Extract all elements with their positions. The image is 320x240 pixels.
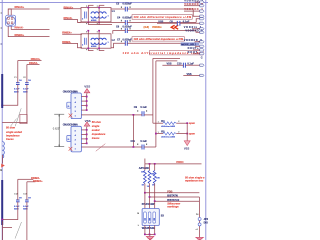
svg-text:50 ohm: 50 ohm — [6, 126, 16, 130]
svg-text:single ended: single ended — [6, 130, 22, 134]
wire P1 bottom pin b — [8, 26, 49, 36]
wire R5 right — [176, 133, 187, 135]
AC coupling cap C12 — [14, 193, 22, 210]
leader line c — [15, 222, 22, 239]
svg-text:M: M — [137, 213, 139, 215]
diff impedance note box 2 — [132, 37, 184, 42]
wire C1 bottom to border — [2, 85, 18, 106]
wire RINBX+ into L2 — [62, 33, 82, 35]
wire border down to flag B — [2, 155, 4, 164]
wire jog row1 to port — [193, 9, 200, 16]
wire RN1a down — [144, 184, 146, 193]
svg-text:DIS: DIS — [204, 222, 208, 225]
wire L1 vertical pass 2 — [98, 5, 100, 24]
AC coupling cap C13 — [23, 193, 31, 210]
wire row RINBX+ through C6 — [113, 31, 126, 34]
ground VSS under S3 — [149, 234, 151, 236]
wire RINAX- into L1 — [64, 20, 82, 23]
ground VSS triangle — [184, 141, 190, 146]
wires S1 pins — [81, 96, 86, 98]
note 50 ohm single ended (left) — [6, 126, 22, 141]
svg-text:0.033uF: 0.033uF — [123, 38, 133, 41]
wire PDB row — [145, 192, 200, 194]
junction dots VDDO — [149, 163, 151, 165]
junction dots L1 — [87, 7, 89, 9]
wire DIN vertical 1 — [153, 57, 180, 59]
junction dots L2 — [87, 30, 89, 32]
chevrons << — [171, 25, 178, 29]
svg-text:W/S4BASE: W/S4BASE — [142, 227, 155, 230]
svg-text:0.1uF: 0.1uF — [140, 106, 147, 109]
wire C2 stub row — [27, 64, 40, 66]
wire row RINBX- through C7 — [111, 43, 125, 48]
svg-text:impedance: impedance — [92, 132, 106, 136]
wire RINBX+ stub row — [27, 181, 36, 183]
wire vertical link C9-C11 — [132, 115, 134, 147]
connector S1 side tab — [67, 102, 71, 108]
svg-text:open: open — [189, 132, 196, 135]
wire L2 vertical pass 1 — [87, 31, 89, 51]
wire C1 stub row — [18, 60, 42, 62]
junction C11 left — [133, 146, 135, 148]
common-mode choke L2 — [81, 34, 111, 48]
wire C9 row — [133, 114, 142, 116]
svg-text:4XNS: 4XNS — [91, 19, 97, 22]
svg-text:49.9ohm-0402: 49.9ohm-0402 — [161, 125, 176, 128]
svg-text:(3-8): (3-8) — [144, 25, 150, 29]
connector S2 body — [71, 126, 81, 152]
wire row RINAX+ through C3 — [111, 8, 125, 10]
resistor RN1c — [153, 164, 160, 184]
wire C8 row — [157, 22, 177, 24]
wire R4 left — [153, 122, 163, 124]
wire VDDO stub up — [144, 159, 146, 164]
ground VSS under JP — [196, 237, 204, 240]
junction R4 — [186, 122, 188, 124]
wire border corner bottom — [3, 221, 12, 228]
svg-text:ended: ended — [92, 128, 100, 132]
capacitor C8 with VSS — [158, 21, 189, 26]
svg-text:P/S4TASW: P/S4TASW — [142, 203, 155, 206]
sheet top border — [0, 2, 208, 4]
svg-text:100 ohm differential impedance: 100 ohm differential impedance +/-5% — [134, 15, 192, 19]
diff impedance note box 1 — [132, 15, 192, 20]
junction R5 — [186, 133, 188, 135]
svg-text:0.1uF: 0.1uF — [23, 206, 29, 208]
dimension annotation 0.625in — [53, 114, 64, 147]
junction at border — [1, 104, 3, 106]
flag B — [1, 164, 5, 168]
resistor R4 row — [158, 120, 181, 128]
power VSS arrow (S1) — [84, 89, 90, 94]
connector S2 side tab — [67, 136, 71, 142]
svg-text:A/P4S08: A/P4S08 — [139, 167, 150, 170]
sheet right border — [205, 0, 207, 240]
wire R5 left — [156, 133, 163, 135]
port MODE_SEL1 highlighted — [181, 42, 200, 45]
wire C2 top — [26, 65, 28, 83]
note 50 ohm single ended (middle) — [92, 120, 106, 140]
common-mode choke L1 — [81, 8, 111, 22]
resistor RN1b — [148, 164, 155, 184]
wire C10 row — [162, 64, 183, 66]
pin1 marker X (S2) — [69, 147, 73, 151]
svg-text:4XNS: 4XNS — [91, 45, 97, 48]
svg-text:0.1uF: 0.1uF — [140, 140, 147, 143]
wires S3 pins down — [144, 225, 146, 234]
wire S2 pin1 signal — [81, 146, 133, 148]
svg-text:MODE_SEL1: MODE_SEL1 — [181, 43, 197, 46]
wire row RINAX- through C4 — [78, 21, 126, 23]
pin numbers L1 — [85, 5, 88, 8]
wire L1 bottom rail — [88, 24, 112, 26]
border bus segment 2 — [1, 180, 3, 225]
wire B/STATN row — [150, 196, 200, 198]
wire L2 vertical pass 2 — [98, 31, 100, 51]
capacitor C4 — [117, 17, 132, 25]
probe box — [20, 115, 27, 124]
svg-text:0.033uF: 0.033uF — [123, 3, 133, 6]
svg-text:VSS: VSS — [184, 146, 190, 150]
wire jog row2 to port — [196, 19, 200, 23]
wires into S3 — [144, 193, 146, 212]
svg-text:0.033uF: 0.033uF — [123, 25, 133, 28]
AC coupling cap C2 — [23, 77, 31, 93]
wire C2 bottom down — [2, 85, 27, 123]
capacitor C9 — [134, 106, 148, 116]
svg-text:VDDO: VDDO — [176, 160, 184, 164]
AC coupling cap C1 — [14, 77, 22, 93]
svg-text:49.9ohm-0402: 49.9ohm-0402 — [161, 136, 176, 139]
wire RN1b down — [149, 184, 151, 197]
svg-text:100 ohm differential impedance: 100 ohm differential impedance +/-5% — [134, 37, 184, 41]
wire RINBX- into L2 — [62, 43, 82, 47]
svg-text:0.1uF: 0.1uF — [14, 89, 20, 91]
connector P1 (circular DIN) — [1, 13, 16, 29]
jumper JP1 pads — [198, 218, 201, 221]
junction dots S1 — [86, 96, 88, 98]
wire C12 top — [17, 179, 19, 200]
leader line b — [10, 119, 16, 127]
svg-text:VDDXtx: VDDXtx — [152, 25, 162, 29]
svg-text:mpedance trac: mpedance trac — [185, 178, 204, 182]
svg-text:0.033uF: 0.033uF — [123, 17, 133, 20]
wire RINAX+ stub row — [8, 8, 49, 10]
svg-text:RINBX+: RINBX+ — [33, 179, 43, 183]
svg-text:traces: traces — [6, 137, 14, 141]
capacitor C6 — [116, 25, 132, 33]
wire RINAX+ into L1 — [64, 8, 82, 10]
wire C13 top — [26, 182, 28, 200]
wire S2 ground bus — [86, 127, 88, 143]
wire L2 bottom stub b — [99, 50, 104, 52]
wire C12 bottom to border — [2, 202, 18, 220]
leader line d — [96, 144, 106, 152]
svg-text:10K: 10K — [156, 177, 160, 179]
svg-text:C11: C11 — [131, 140, 136, 143]
pin1 marker X (S1) — [69, 114, 73, 118]
wire DIN vertical 2 — [156, 60, 177, 62]
wire P1 top pins — [8, 9, 11, 15]
power VSS arrow (S2) — [84, 122, 90, 127]
wire L1 vertical pass 1 — [87, 5, 89, 24]
svg-text:open: open — [189, 122, 196, 125]
svg-text:RINAX+: RINAX+ — [31, 57, 41, 61]
svg-text:50 ohm: 50 ohm — [92, 120, 102, 124]
wire R4 right — [176, 122, 187, 124]
wire RN1c down — [154, 184, 156, 202]
svg-text:traces: traces — [92, 136, 100, 140]
wire S1 pin1 signal — [81, 114, 133, 116]
wire C11 row — [133, 146, 142, 148]
wire B/STATLN row — [155, 200, 200, 202]
border bus segment 1 — [1, 74, 3, 108]
wire L1 top stub b — [99, 4, 104, 6]
svg-text:single: single — [92, 124, 100, 128]
wire S1 ground bus — [86, 94, 88, 111]
wire to VSS gnd — [186, 123, 188, 141]
svg-text:JP4: JP4 — [204, 218, 208, 221]
svg-text:markings: markings — [167, 205, 179, 209]
svg-text:RINAX-: RINAX- — [15, 26, 24, 30]
junction at border 2 — [1, 219, 3, 221]
wires S2 pins — [81, 129, 86, 131]
svg-text:0.1uF: 0.1uF — [23, 89, 29, 91]
svg-text:C: C — [201, 56, 203, 59]
svg-text:0.1uF: 0.1uF — [14, 206, 20, 208]
resistor R5 row — [158, 131, 181, 139]
junction dots S2 — [86, 129, 88, 131]
wire P1 bottom pin a — [11, 26, 49, 29]
diff impedance note box 3 — [123, 50, 204, 55]
resistor RN1a — [141, 164, 146, 184]
wire S3 gnd tie — [145, 233, 155, 235]
leader line a — [15, 108, 21, 126]
grid mark left border — [1, 44, 3, 45]
svg-text:B: B — [0, 168, 2, 172]
junction R5 at vertical — [155, 133, 157, 135]
switch S3 body — [142, 209, 159, 226]
wire C1 top — [17, 61, 19, 83]
wire VDDO rail — [145, 163, 202, 165]
svg-text:RINBX+: RINBX+ — [15, 33, 25, 37]
pin numbers L2 — [85, 30, 88, 33]
junction C9 left — [133, 114, 135, 116]
svg-text:0.625": 0.625" — [53, 127, 60, 131]
svg-text:10K: 10K — [141, 171, 145, 173]
capacitor C10 with VSS — [167, 63, 195, 68]
svg-text:VDDXtx_1: VDDXtx_1 — [184, 26, 202, 29]
wire C13 bottom down — [26, 202, 28, 240]
border coil — [2, 142, 4, 158]
sheet left border — [1, 0, 3, 240]
wire L1 top stub a — [88, 4, 93, 6]
capacitor C7 — [117, 38, 132, 45]
wire L2 bottom stub a — [88, 50, 93, 52]
wire jumper drop — [198, 197, 200, 237]
wire RINBX- stub row — [18, 178, 34, 180]
svg-text:VSS: VSS — [84, 85, 90, 89]
capacitor C11 — [131, 140, 148, 150]
connector S1 body — [71, 93, 81, 119]
svg-text:RINAX-: RINAX- — [29, 61, 38, 65]
svg-text:RINAX+: RINAX+ — [15, 5, 25, 9]
capacitor C3 — [116, 3, 132, 12]
